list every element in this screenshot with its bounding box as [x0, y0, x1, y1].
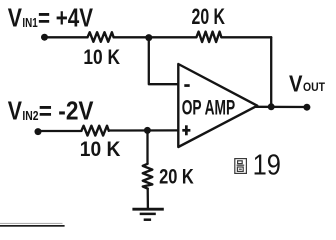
svg-text:10 K: 10 K — [80, 138, 121, 161]
svg-text:20 K: 20 K — [159, 166, 194, 189]
wire R4 to ground — [147, 189, 149, 208]
label VIN1 = +4V — [8, 2, 94, 32]
node VIN2 input terminal — [35, 128, 42, 135]
resistor R2 20 K feedback — [197, 32, 222, 42]
svg-text:OUT: OUT — [303, 80, 326, 94]
svg-text:IN1: IN1 — [22, 16, 37, 30]
resistor R1 10 K — [88, 32, 114, 42]
svg-text:V: V — [289, 71, 303, 97]
wire R3 to non-inverting junction — [109, 129, 179, 131]
ground symbol — [132, 209, 163, 220]
junction node inverting input net — [145, 34, 152, 41]
node VIN1 input terminal — [41, 34, 48, 41]
pin marker plus non-inverting input — [182, 125, 190, 135]
wire junction down to inverting pin — [149, 38, 179, 85]
svg-text:= -2V: = -2V — [39, 95, 94, 125]
resistor R3 10 K — [81, 126, 108, 136]
svg-text:V: V — [8, 95, 23, 125]
svg-text:= +4V: = +4V — [38, 2, 94, 32]
svg-text:10 K: 10 K — [83, 46, 120, 69]
node VOUT terminal — [303, 104, 310, 111]
wire R1 to inverting junction — [114, 36, 149, 38]
wire op-amp output to VOUT terminal — [256, 106, 307, 108]
wire junction to R2 — [149, 36, 197, 38]
label VIN2 = -2V — [8, 95, 94, 125]
pin marker minus inverting input — [184, 84, 189, 87]
op-amp U1 body — [178, 64, 257, 147]
node output junction — [268, 103, 275, 110]
svg-text:20 K: 20 K — [192, 4, 226, 29]
junction node non-inverting input net — [144, 127, 151, 134]
label VOUT — [289, 71, 326, 97]
wire R2 to feedback corner — [221, 36, 271, 38]
figure caption glyph 圖 — [235, 159, 247, 174]
wire VIN1 to R1 — [45, 36, 88, 38]
wire VIN2 to R3 — [38, 130, 81, 132]
svg-text:OP AMP: OP AMP — [182, 96, 236, 119]
resistor R4 20 K to ground — [143, 164, 153, 189]
wire feedback vertical down to output node — [270, 37, 272, 107]
wire junction down to R4 — [146, 130, 148, 163]
page artifact gray rule bottom left — [0, 223, 63, 224]
svg-text:IN2: IN2 — [22, 109, 38, 123]
svg-text:V: V — [8, 2, 23, 32]
svg-text:19: 19 — [253, 150, 281, 182]
page artifact black rule bottom left — [0, 225, 65, 227]
